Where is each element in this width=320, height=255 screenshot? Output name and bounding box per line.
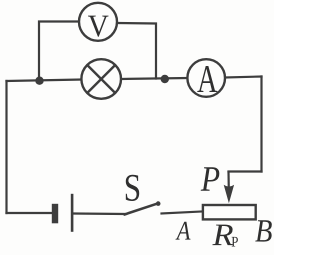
battery: negative plate (short thick) xyxy=(52,204,58,224)
wire right rail to slider xyxy=(229,170,262,172)
wire voltmeter left branch xyxy=(39,22,80,81)
lamp L xyxy=(81,59,121,99)
voltmeter V xyxy=(79,3,117,41)
junction node left xyxy=(35,77,43,85)
switch S blade xyxy=(125,203,159,214)
rheostat slider shaft xyxy=(227,171,230,190)
wire left rail xyxy=(5,81,7,213)
wire voltmeter right branch xyxy=(117,23,156,79)
rheostat slider arrowhead xyxy=(224,185,234,203)
wire main left (rail to lamp) xyxy=(7,80,82,82)
label A (rheostat left terminal) xyxy=(176,222,191,240)
label B (rheostat right terminal) xyxy=(255,220,271,241)
wire bottom from rail to battery xyxy=(7,212,53,214)
wire switch to rheostat xyxy=(162,212,202,214)
wire lamp to ammeter xyxy=(121,78,188,79)
wire right rail xyxy=(260,77,262,172)
switch blade tip blob xyxy=(156,201,161,206)
wire battery to switch xyxy=(74,212,125,215)
wire ammeter to right rail xyxy=(225,77,262,78)
battery: positive plate (long thin) xyxy=(71,194,74,232)
rheostat body R_P xyxy=(203,205,256,219)
junction node right xyxy=(161,75,169,83)
label R_P xyxy=(212,225,233,246)
ammeter A xyxy=(187,59,225,97)
label P xyxy=(201,167,220,190)
label S xyxy=(126,175,139,201)
